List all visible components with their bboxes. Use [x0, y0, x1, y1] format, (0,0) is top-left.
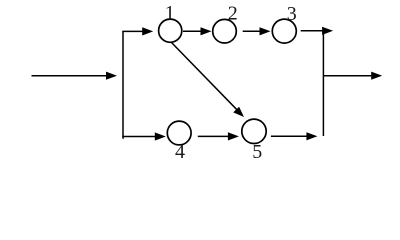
- wire: left branch to node 4: [122, 132, 166, 140]
- svg-text:3: 3: [287, 3, 297, 25]
- svg-text:2: 2: [228, 3, 238, 25]
- node 3: [272, 19, 296, 43]
- node 4: [167, 121, 191, 145]
- right junction wire (vertical): [322, 30, 324, 136]
- svg-text:1: 1: [165, 2, 175, 24]
- wire: node 3 to right junction: [301, 27, 333, 35]
- svg-text:5: 5: [252, 141, 262, 163]
- node 5: [242, 119, 266, 143]
- node 2: [213, 19, 237, 43]
- wire: node 5 to right junction: [271, 132, 318, 140]
- output arrow: [323, 72, 382, 80]
- wire: node 4 to node 5: [198, 132, 239, 140]
- svg-text:4: 4: [175, 141, 185, 163]
- input arrow: [32, 72, 118, 80]
- diagonal wire: node 1 to node 5: [171, 42, 244, 117]
- node 1: [159, 19, 182, 42]
- wire: left branch to node 1: [122, 27, 153, 35]
- wire: node 1 to node 2: [183, 27, 212, 35]
- left branch wire (vertical): [122, 31, 124, 138]
- wire: node 2 to node 3: [243, 27, 271, 35]
